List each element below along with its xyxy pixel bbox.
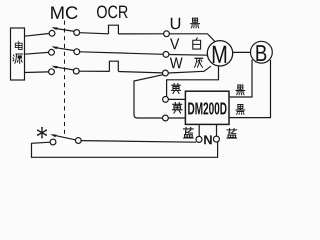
label DM200D [188,102,226,114]
wire timer bottom to plug left [198,124,200,136]
label W [170,58,183,69]
terminal U [164,31,170,37]
label B [256,45,266,61]
hanzi hei black 1 [236,85,245,95]
wire timer black terminal 2 to B [229,60,271,118]
hanzi hui gray W [195,58,203,67]
wire L2 from box to MC [25,52,49,54]
hanzi bai white V [193,38,201,49]
label OCR [97,5,128,18]
label U [171,18,180,30]
label N [204,135,212,144]
interlock switch circles [50,139,56,145]
wire L1 OCR to terminal U [118,33,163,35]
wire L3 OCR to terminal W [118,72,162,73]
label V [170,38,179,49]
buzzer B circle [251,41,273,63]
wire timer bottom to plug right [216,124,218,136]
wire timer black terminal 1 to B [229,60,252,97]
plug terminal left [196,136,202,142]
wire M bottom to timer yellow terminal 1 [167,66,219,97]
wire switch to plug left [81,141,196,143]
label M [213,46,226,63]
star mark [37,127,47,139]
wire W to motor [168,66,211,73]
contactor MC pole 1 [49,30,55,36]
terminal W [163,70,169,76]
hanzi hei black 2 [236,105,245,115]
wire V to motor [169,54,208,57]
hanzi huang yellow 2 [173,103,183,114]
plug terminal right [213,136,219,142]
OCR heater element line 3 [109,61,118,71]
OCR heater element line 1 [109,25,119,34]
wire L3 MC to OCR [79,70,109,72]
MC linkage dashed line [64,21,66,137]
hanzi dian (power) [15,41,22,49]
power source box [11,28,25,80]
wire switch left around bottom to plug right [32,142,218,158]
label MC [51,6,77,19]
terminal yellow 2 [163,115,169,121]
wire yellow2 to timer box [168,117,185,119]
wire L1 from box to MC [25,34,50,37]
contactor MC pole 3 [49,69,55,75]
interlock switch blade [53,135,76,140]
terminal V [163,52,169,58]
wire yellow1 to timer box [168,98,185,100]
hanzi lan blue right [227,129,237,139]
wire L3 from box to MC [25,71,49,74]
wire L1 MC to OCR [80,33,109,34]
wire U to motor [169,34,216,43]
wire L2 MC to terminal V [80,52,163,55]
hanzi huang yellow 1 [172,84,181,94]
timer DM200D box [185,91,229,124]
terminal yellow 1 [163,97,169,103]
contactor MC pole 2 [49,49,55,55]
hanzi lan blue left [184,128,194,138]
wire M to B [233,51,251,53]
hanzi hei black U [191,18,200,28]
motor M circle [207,41,232,66]
hanzi yuan (source) [13,54,23,63]
wire W terminal down to yellow terminal 2 [134,75,163,118]
